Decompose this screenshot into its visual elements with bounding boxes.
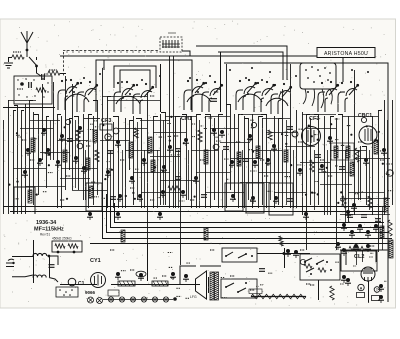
AF box 2 xyxy=(246,183,264,213)
wire v68 xyxy=(354,70,356,215)
dot xyxy=(59,289,61,291)
capacitor blob xyxy=(157,212,163,220)
tube pin dot xyxy=(329,72,331,74)
wire v28 xyxy=(136,119,142,209)
wire vf11 xyxy=(199,120,201,208)
resistor 2m box xyxy=(118,281,135,286)
value label xyxy=(13,51,21,53)
junction xyxy=(73,251,76,254)
junction xyxy=(237,291,239,293)
capacitor xyxy=(175,149,181,152)
resistor left mid xyxy=(76,130,80,142)
wire CL2 cathode xyxy=(368,281,370,303)
wire v48 xyxy=(244,116,246,208)
tube pin dot xyxy=(313,81,315,83)
wire stage riser xyxy=(160,64,162,112)
capacitor blob xyxy=(271,144,277,152)
svg-text:1936-34: 1936-34 xyxy=(36,220,57,226)
value label xyxy=(370,245,375,247)
value label xyxy=(298,141,303,143)
switch mains xyxy=(12,275,33,277)
tube V6 electrodes b xyxy=(338,81,359,112)
wire v75 xyxy=(3,120,5,214)
tube V1 electrodes b xyxy=(77,81,98,112)
capacitor blob xyxy=(183,138,189,146)
tube CL2 envelope xyxy=(361,267,375,282)
wire h3 xyxy=(165,116,196,118)
wire v15 xyxy=(72,84,74,190)
wire xyxy=(340,249,388,251)
value label xyxy=(300,249,305,251)
wire h18 xyxy=(252,150,282,152)
dot in box xyxy=(43,96,44,97)
value label xyxy=(328,175,333,177)
contact xyxy=(226,283,234,287)
wire v32 xyxy=(161,113,166,206)
connection dot xyxy=(307,91,309,93)
lamp dial xyxy=(152,297,157,302)
wire vf15 xyxy=(286,120,288,205)
wire h11 xyxy=(210,128,238,130)
wire right xyxy=(344,206,386,208)
coil right 1 xyxy=(384,198,388,212)
value label xyxy=(236,141,241,143)
svg-text:CY1: CY1 xyxy=(90,258,101,264)
coil xyxy=(93,130,97,142)
coil IFT b xyxy=(346,146,350,158)
wire h22 xyxy=(133,172,170,174)
wire h38 xyxy=(355,158,390,160)
resistor screen xyxy=(349,246,365,250)
winding bottom xyxy=(33,275,46,278)
connection dot xyxy=(261,79,263,81)
wire v22 xyxy=(108,97,112,209)
coil L5 xyxy=(237,152,241,166)
capacitor blob xyxy=(351,203,357,211)
wire vf4 xyxy=(122,150,124,208)
value label xyxy=(60,199,65,201)
wire v20 xyxy=(93,101,98,196)
capacitor blob xyxy=(22,170,28,178)
value label xyxy=(86,145,91,147)
wire v67 xyxy=(348,116,350,222)
ground xyxy=(4,63,13,68)
dot in box xyxy=(47,91,48,92)
wire vf9 xyxy=(178,150,180,208)
connection dot xyxy=(251,67,253,69)
resistor xyxy=(48,71,60,75)
connection dot xyxy=(197,91,199,93)
wire h9 xyxy=(118,128,147,130)
capacitor blob xyxy=(161,165,167,173)
junction xyxy=(225,255,227,257)
wire vf19 xyxy=(345,150,347,222)
switch box bottom right xyxy=(300,254,340,280)
svg-text:T: T xyxy=(376,288,378,292)
junction xyxy=(245,282,247,284)
coil xyxy=(350,162,354,176)
wire h12 xyxy=(266,132,296,134)
capacitor xyxy=(175,177,181,180)
wire loop left xyxy=(14,187,35,214)
wire h8 xyxy=(84,118,100,120)
wire h14 xyxy=(20,128,53,130)
wire v59 xyxy=(302,112,304,215)
contact xyxy=(238,288,246,292)
capacitor blob xyxy=(167,145,173,153)
capacitor blob right xyxy=(349,230,355,238)
heater dashed riser xyxy=(63,52,65,77)
connection dot xyxy=(189,77,191,79)
svg-text:C1: C1 xyxy=(78,281,85,287)
resistor bias xyxy=(330,286,334,300)
wire stage riser b xyxy=(220,52,222,112)
jack box bottom xyxy=(221,279,257,298)
wire h21 xyxy=(61,168,97,170)
connection dot xyxy=(129,93,131,95)
tube V1 dome xyxy=(65,94,89,102)
diode load box xyxy=(86,183,102,211)
wire xyxy=(362,250,364,262)
capacitor blob xyxy=(319,164,325,172)
svg-text:9066: 9066 xyxy=(85,290,96,295)
lamp pilot 2 xyxy=(97,298,103,304)
capacitor blob xyxy=(117,194,123,202)
tube pin dot xyxy=(317,69,319,71)
wire h7 xyxy=(342,116,378,118)
wire h16 xyxy=(125,150,160,152)
value label xyxy=(380,159,385,161)
resistor xyxy=(168,186,180,190)
wire v36 xyxy=(180,118,182,265)
wire v70 xyxy=(362,147,367,206)
wire chain xyxy=(103,299,173,301)
value label xyxy=(260,159,265,161)
wire xyxy=(8,57,12,59)
wire h5 xyxy=(238,114,266,116)
capacitor xyxy=(339,167,345,170)
junction xyxy=(283,252,286,255)
wire v46 xyxy=(234,114,236,200)
dot in box xyxy=(25,78,26,79)
heater dashed line xyxy=(63,50,159,52)
wire vf14 xyxy=(270,150,272,200)
output transformer secondary xyxy=(215,272,219,300)
wire xyxy=(345,250,347,265)
resistor xyxy=(55,244,65,248)
value label xyxy=(110,249,115,251)
dot in box xyxy=(42,78,43,79)
wire v8 xyxy=(42,84,44,160)
connection dot xyxy=(159,75,161,77)
chain end blob xyxy=(173,297,177,301)
value label xyxy=(340,199,345,201)
tube V4 dome xyxy=(238,94,262,102)
wire h43 xyxy=(60,178,90,180)
tube box top right xyxy=(300,63,336,89)
wire top bus 1 xyxy=(60,56,343,82)
wire v40 xyxy=(205,116,207,208)
capacitor xyxy=(107,151,113,154)
label bekw xyxy=(249,289,262,294)
wire v58 xyxy=(296,110,298,208)
wire HT loop right xyxy=(224,63,388,302)
wire right xyxy=(340,198,390,200)
tube V3 electrodes b xyxy=(202,81,223,112)
coil xyxy=(151,160,155,172)
capacitor out xyxy=(285,249,291,257)
value label xyxy=(70,95,75,97)
lamp dial xyxy=(119,297,124,302)
lamp dial xyxy=(130,297,135,302)
capacitor CL2 cathode xyxy=(341,275,347,283)
resistor tone long xyxy=(251,294,306,298)
wire v65 xyxy=(336,118,338,250)
value label xyxy=(49,69,57,71)
capacitor blob xyxy=(25,148,31,156)
wire top bus 2 xyxy=(196,46,287,80)
capacitor blob xyxy=(73,156,79,164)
dot xyxy=(71,289,73,291)
capacitor blob xyxy=(115,140,121,148)
coil xyxy=(374,140,378,154)
capacitor C1 xyxy=(68,278,76,286)
coil xyxy=(121,230,125,242)
wire xyxy=(60,73,66,75)
junction xyxy=(225,286,227,288)
tube V3 electrodes xyxy=(184,79,205,110)
junction xyxy=(245,253,247,255)
wire h15 xyxy=(57,140,88,142)
tube V6 electrodes xyxy=(318,81,339,112)
capacitor blob xyxy=(303,212,309,220)
wire h32 xyxy=(30,120,60,122)
capacitor blob xyxy=(381,148,387,156)
wire to output xyxy=(257,253,310,255)
wire transformer right rail xyxy=(49,256,51,277)
capacitor out b xyxy=(293,250,299,258)
wire to C1 xyxy=(49,278,58,283)
resistor xyxy=(268,130,272,140)
wire v55 xyxy=(279,119,283,206)
coil osc xyxy=(28,190,32,203)
tube V4 electrodes b xyxy=(254,81,275,112)
wire stub xyxy=(36,57,38,60)
dot in box xyxy=(34,95,35,96)
coil xyxy=(204,228,208,240)
wire v42 xyxy=(214,118,216,200)
junction dots xyxy=(48,164,50,166)
capacitor xyxy=(378,295,384,303)
connection dot xyxy=(351,69,353,71)
lamp pilot 1 xyxy=(88,297,94,303)
connection dot xyxy=(141,79,143,81)
wire v2 xyxy=(14,106,18,215)
wire h13 xyxy=(306,128,336,130)
wire v72 xyxy=(379,111,383,253)
wire v34 xyxy=(173,56,175,208)
capacitor blob xyxy=(252,160,258,168)
tube V5 electrodes xyxy=(271,83,292,114)
wire loop xyxy=(114,66,156,88)
antenna xyxy=(21,31,33,57)
capacitor blob xyxy=(273,196,279,204)
capacitor blob xyxy=(105,170,111,178)
dot xyxy=(65,291,67,293)
wire v66 xyxy=(338,115,343,206)
junction xyxy=(310,273,312,275)
wire v74 xyxy=(392,100,394,205)
wire vf20 xyxy=(358,150,360,200)
coil L6 xyxy=(256,146,260,158)
tube CBC1 envelope xyxy=(359,126,377,144)
value label xyxy=(340,91,345,93)
lamp dial xyxy=(108,297,113,302)
capacitor xyxy=(67,139,73,142)
capacitor blob xyxy=(170,272,176,280)
capacitor blob xyxy=(137,194,143,202)
resistor 5m box xyxy=(152,281,168,286)
junction mains xyxy=(48,255,51,258)
capacitor blob xyxy=(55,160,61,168)
svg-text:450kΩ 250kΩ: 450kΩ 250kΩ xyxy=(52,237,72,241)
capacitor CL2 cathode b xyxy=(345,278,351,286)
capacitor blob xyxy=(297,168,303,176)
wire v24 xyxy=(113,117,119,209)
wire xyxy=(60,284,97,286)
resistor xyxy=(95,150,99,162)
value label xyxy=(130,187,135,189)
wire v21 xyxy=(102,68,104,208)
dot xyxy=(69,294,71,296)
wire v5 xyxy=(30,101,34,201)
mains plug xyxy=(6,259,15,266)
wire h46 xyxy=(320,184,352,186)
capacitor blob xyxy=(230,194,236,202)
wire h26 xyxy=(25,186,65,188)
wire v17 xyxy=(83,114,85,200)
wire v38 xyxy=(191,116,193,208)
box TM xyxy=(372,296,380,301)
capacitor xyxy=(287,199,293,202)
connection dot xyxy=(245,77,247,79)
wire v3 xyxy=(22,111,25,215)
wire v50 xyxy=(252,114,254,208)
value label xyxy=(150,95,155,97)
value label xyxy=(280,91,285,93)
tube pin dot xyxy=(324,67,326,69)
band switch box xyxy=(14,76,52,104)
wire top bus 3 xyxy=(218,52,283,80)
wire v54 xyxy=(274,116,276,208)
capacitor xyxy=(378,284,384,292)
svg-text:CBC1: CBC1 xyxy=(358,113,372,119)
capacitor coupling xyxy=(42,74,45,80)
connection dot xyxy=(65,79,67,81)
wire h27 xyxy=(72,190,107,192)
wire v69 xyxy=(360,146,362,200)
tube V2 electrodes b xyxy=(133,83,154,114)
capacitor blob xyxy=(160,190,166,198)
capacitor blob right xyxy=(357,224,363,232)
tube V1 electrodes xyxy=(58,79,79,110)
wire h34 xyxy=(262,118,290,120)
coil xyxy=(63,150,67,162)
connection dot xyxy=(83,77,85,79)
value label xyxy=(174,135,179,137)
wire v1 xyxy=(14,111,17,215)
wire v10 xyxy=(53,82,55,160)
capacitor blob xyxy=(219,130,225,138)
dot xyxy=(63,294,65,296)
resistor xyxy=(355,148,359,162)
wire h1 xyxy=(102,96,147,98)
wire bus A xyxy=(115,203,385,223)
dot in box xyxy=(18,94,19,95)
value label xyxy=(190,199,195,201)
value label xyxy=(310,284,315,286)
wire vf21 xyxy=(369,150,371,210)
value label xyxy=(306,283,311,285)
wire vf18 xyxy=(327,150,329,215)
small circle out xyxy=(300,259,305,264)
value label xyxy=(200,159,205,161)
wire v4 xyxy=(25,104,27,214)
coil right 2 xyxy=(380,226,384,238)
wire v29 xyxy=(147,92,149,243)
wire h20 xyxy=(13,168,46,170)
wire h25 xyxy=(318,172,354,174)
svg-text:ARISTONA H50U: ARISTONA H50U xyxy=(324,51,368,57)
capacitor blob xyxy=(77,126,83,134)
wire h37 xyxy=(285,146,315,148)
wire h40 xyxy=(150,156,180,158)
wire xyxy=(182,51,190,56)
capacitor xyxy=(287,127,293,130)
wire v18 xyxy=(89,115,93,209)
wire h33 xyxy=(140,120,170,122)
wire v52 xyxy=(262,118,264,205)
resistor xyxy=(310,160,314,172)
wire v16 xyxy=(74,117,79,191)
wire h4 xyxy=(205,116,230,118)
coil L4 xyxy=(204,150,208,164)
tube V3 dome xyxy=(187,94,211,102)
wire vf10 xyxy=(188,150,190,200)
wire xyxy=(37,66,42,76)
wire h44 xyxy=(160,180,196,182)
junction xyxy=(35,65,38,68)
tube CF3 envelope xyxy=(302,127,321,146)
wire v25 xyxy=(125,118,127,208)
wire stage loop xyxy=(96,60,192,112)
tube pin dot xyxy=(311,66,313,68)
junction xyxy=(330,269,332,271)
wire v14 xyxy=(70,119,73,171)
capacitor xyxy=(59,134,65,142)
value label xyxy=(162,275,167,277)
wire v27 xyxy=(133,116,135,205)
value label xyxy=(358,141,363,143)
wire bus B xyxy=(111,198,385,228)
wire vf2 xyxy=(85,150,87,200)
wire v12 xyxy=(61,116,63,208)
wire h24 xyxy=(258,172,290,174)
wire v19 xyxy=(93,116,95,205)
tube V5 dome xyxy=(266,98,288,106)
wire vf1 xyxy=(75,120,77,188)
wire v39 xyxy=(197,115,202,209)
